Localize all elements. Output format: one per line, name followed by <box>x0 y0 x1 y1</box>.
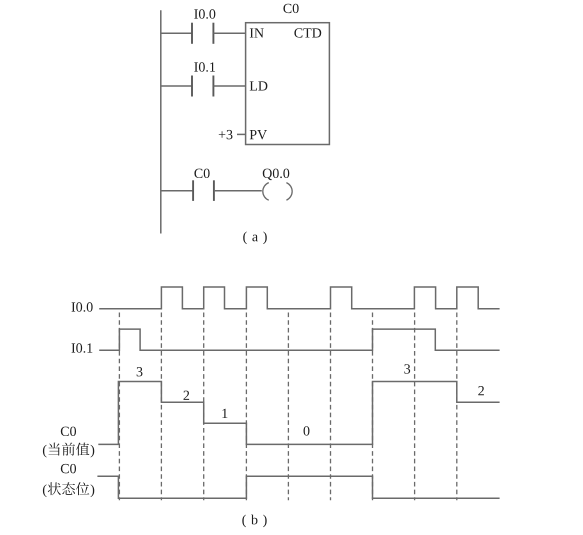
label (current value) CJK <box>43 443 94 458</box>
label count value 2 (second) <box>478 386 484 395</box>
label caption (b) <box>242 515 266 528</box>
dashed time line t6 <box>330 313 332 501</box>
waveform C0 current value <box>98 382 499 445</box>
wire rung4 left <box>161 190 193 192</box>
waveform I0.1 <box>99 329 499 350</box>
wire rung2 right to LD <box>213 85 245 87</box>
dashed time line t3 <box>203 313 205 501</box>
label count value 3 <box>137 367 143 376</box>
label count value 3 (second) <box>404 364 410 373</box>
wire rung2 left <box>161 85 192 87</box>
left power rail <box>160 10 162 233</box>
label C0 box title <box>283 4 298 13</box>
label PV pin <box>250 130 267 139</box>
label IN pin <box>250 28 264 37</box>
label count value 1 <box>222 409 227 418</box>
dashed time line t4 <box>245 313 247 501</box>
label caption (a) <box>243 231 267 244</box>
label count value 2 <box>184 391 190 400</box>
dashed time line t7 <box>372 313 374 501</box>
contact I0.1 <box>192 76 213 97</box>
waveform I0.0 <box>99 287 499 309</box>
label C0 current-value label C0 <box>61 427 76 436</box>
wire PV stub <box>237 133 246 135</box>
label I0.0 timing label <box>72 302 93 312</box>
label C0 status-bit label C0 <box>61 464 76 473</box>
dashed time line t1 <box>118 313 120 501</box>
dashed time line t8 <box>414 313 416 501</box>
label (status bit) CJK <box>43 482 94 497</box>
label Q0.0 coil label <box>263 169 290 181</box>
coil Q0.0 <box>263 183 292 201</box>
label I0.1 (ladder contact) <box>194 62 215 72</box>
wire rung1 right to IN <box>213 32 245 34</box>
wire rung1 left <box>161 32 192 34</box>
label LD pin <box>250 81 268 90</box>
label I0.0 (ladder contact) <box>194 9 215 19</box>
contact C0 <box>193 180 214 201</box>
waveform C0 status bit <box>97 476 499 498</box>
counter box C0 CTD <box>246 23 330 145</box>
contact I0.0 <box>192 23 213 44</box>
label CTD pin <box>294 28 321 37</box>
label +3 preset value <box>219 130 233 139</box>
dashed time line t9 <box>456 313 458 501</box>
label I0.1 timing label <box>72 343 93 353</box>
dashed time line t5 <box>287 313 289 501</box>
label count value 0 <box>304 426 310 435</box>
dashed time line t2 <box>160 313 162 501</box>
label C0 contact label <box>194 169 209 178</box>
wire rung4 to coil <box>214 190 262 192</box>
